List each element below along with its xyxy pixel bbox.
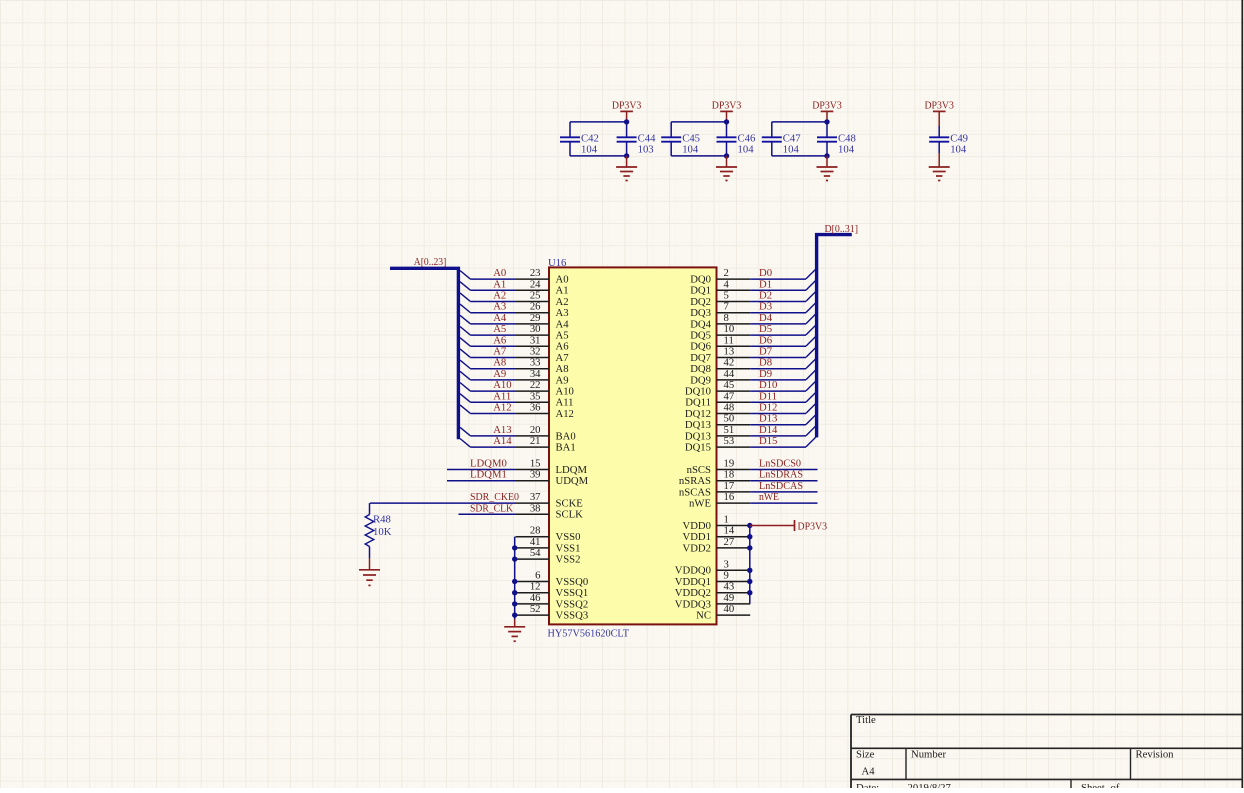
svg-text:46: 46: [530, 592, 541, 604]
svg-text:DQ1: DQ1: [690, 285, 711, 297]
svg-text:DQ11: DQ11: [685, 397, 711, 409]
svg-text:VSSQ3: VSSQ3: [556, 610, 589, 622]
net D3: wire + bus entry + label: [750, 301, 816, 313]
capacitor C42 104: [560, 132, 599, 155]
svg-text:A[0..23]: A[0..23]: [414, 256, 447, 268]
svg-text:D5: D5: [759, 323, 772, 335]
svg-text:A13: A13: [493, 424, 511, 436]
svg-text:nSRAS: nSRAS: [679, 475, 711, 487]
pin 53 (DQ15) right: [685, 435, 750, 453]
pin 48 (DQ12) right: [685, 402, 750, 420]
pin 32 (A7) left: [516, 346, 570, 364]
svg-text:20: 20: [530, 424, 541, 436]
svg-text:A14: A14: [493, 435, 512, 447]
svg-text:nSCAS: nSCAS: [679, 486, 711, 498]
svg-text:13: 13: [724, 346, 735, 358]
svg-text:C49: C49: [950, 132, 968, 144]
svg-text:A1: A1: [493, 278, 506, 290]
svg-text:10: 10: [724, 323, 735, 335]
svg-text:24: 24: [530, 278, 541, 290]
svg-text:32: 32: [530, 346, 541, 358]
svg-text:Sheet: Sheet: [1081, 782, 1105, 788]
junction bottom node: [624, 153, 629, 158]
pin 42 (DQ8) right: [690, 357, 750, 375]
svg-text:D0: D0: [759, 267, 772, 279]
net A8: bus entry + wire + label: [460, 357, 516, 369]
ground below R48: [369, 558, 371, 570]
svg-text:DP3V3: DP3V3: [798, 520, 828, 532]
net D7: wire + bus entry + label: [750, 346, 816, 358]
net D12: wire + bus entry + label: [750, 402, 816, 414]
svg-text:Date:: Date:: [856, 782, 879, 788]
net SDR_CLK: wire + label: [459, 502, 516, 514]
svg-text:U16: U16: [548, 257, 567, 269]
svg-text:A1: A1: [556, 285, 569, 297]
svg-text:8: 8: [724, 312, 729, 324]
pin 23 (A0) left: [516, 267, 569, 285]
pin 41 (VSS1) left: [516, 536, 581, 554]
svg-text:D14: D14: [759, 424, 778, 436]
svg-text:DQ7: DQ7: [690, 352, 711, 364]
net D4: wire + bus entry + label: [750, 312, 816, 324]
svg-text:36: 36: [530, 402, 541, 414]
svg-text:48: 48: [724, 402, 735, 414]
pin 49 (VDDQ3) right: [675, 592, 750, 610]
svg-text:D8: D8: [759, 357, 772, 369]
svg-text:A2: A2: [493, 290, 506, 302]
svg-text:5: 5: [724, 290, 729, 302]
capacitor C45 104: [661, 132, 700, 155]
svg-text:A10: A10: [493, 379, 511, 391]
net A10: bus entry + wire + label: [460, 379, 516, 391]
power port DP3V3 at VDD0: [750, 520, 827, 532]
net D1: wire + bus entry + label: [750, 278, 816, 290]
junction VSS rail: [512, 579, 517, 584]
net D13: wire + bus entry + label: [750, 413, 816, 425]
net D5: wire + bus entry + label: [750, 323, 816, 335]
pin 2 (DQ0) right: [690, 267, 750, 285]
net D0: wire + bus entry + label: [750, 267, 816, 279]
svg-text:VDDQ2: VDDQ2: [675, 587, 711, 599]
wire VDD rail: [749, 526, 751, 604]
junction top node: [624, 119, 629, 124]
pin 4 (DQ1) right: [690, 278, 750, 296]
svg-text:VSS2: VSS2: [556, 554, 581, 566]
svg-text:A11: A11: [556, 397, 574, 409]
pin 47 (DQ11) right: [685, 390, 750, 408]
svg-text:DQ4: DQ4: [690, 318, 711, 330]
svg-text:45: 45: [724, 379, 735, 391]
svg-text:A7: A7: [493, 346, 507, 358]
junction top node: [824, 119, 829, 124]
svg-text:D10: D10: [759, 379, 777, 391]
svg-text:Title: Title: [856, 714, 876, 726]
svg-text:BA1: BA1: [556, 442, 576, 454]
svg-text:A0: A0: [493, 267, 506, 279]
svg-text:VDD2: VDD2: [683, 542, 712, 554]
pin 33 (A8) left: [516, 357, 569, 375]
svg-text:NC: NC: [696, 610, 711, 622]
svg-text:DQ15: DQ15: [685, 442, 711, 454]
pin 1 (VDD0) right: [683, 514, 751, 532]
svg-text:A4: A4: [862, 766, 876, 778]
pin 5 (DQ2) right: [690, 290, 750, 308]
svg-text:DP3V3: DP3V3: [924, 100, 954, 112]
svg-text:51: 51: [724, 424, 735, 436]
svg-text:LDQM1: LDQM1: [470, 469, 507, 481]
net A3: bus entry + wire + label: [460, 301, 516, 313]
resistor R48 10K: [365, 503, 391, 558]
svg-text:47: 47: [724, 390, 735, 402]
pin 43 (VDDQ2) right: [675, 581, 750, 599]
svg-text:LnSDRAS: LnSDRAS: [759, 469, 803, 481]
svg-text:38: 38: [530, 502, 541, 514]
wire top rail C45-C46: [671, 122, 726, 137]
svg-text:33: 33: [530, 357, 541, 369]
net A11: bus entry + wire + label: [460, 390, 516, 402]
svg-text:104: 104: [738, 144, 755, 156]
pin 9 (VDDQ1) right: [675, 570, 750, 588]
svg-text:50: 50: [724, 413, 735, 425]
svg-text:D13: D13: [759, 413, 777, 425]
svg-text:53: 53: [724, 435, 735, 447]
ground below C44: [626, 156, 628, 167]
power port DP3V3 above C44: [612, 100, 642, 122]
svg-text:19: 19: [724, 458, 735, 470]
svg-text:C47: C47: [783, 132, 801, 144]
pin 22 (A10) left: [516, 379, 574, 397]
svg-text:nWE: nWE: [759, 491, 779, 503]
svg-text:DQ2: DQ2: [690, 296, 711, 308]
svg-text:40: 40: [724, 603, 735, 615]
net D9: wire + bus entry + label: [750, 368, 816, 380]
svg-text:12: 12: [530, 581, 541, 593]
pin 6 (VSSQ0) left: [516, 570, 589, 588]
svg-text:SDR_CLK: SDR_CLK: [470, 502, 513, 514]
wire bottom rail C45-C46: [671, 142, 726, 156]
power port DP3V3 above C48: [812, 100, 842, 122]
svg-text:SDR_CKE0: SDR_CKE0: [470, 491, 519, 503]
net LDQM1: wire + label: [447, 469, 516, 481]
svg-text:1: 1: [724, 514, 729, 526]
pin 12 (VSSQ1) left: [516, 581, 589, 599]
pin 35 (A11) left: [516, 390, 574, 408]
svg-text:C44: C44: [638, 132, 656, 144]
svg-text:39: 39: [530, 469, 541, 481]
svg-text:A3: A3: [556, 307, 569, 319]
svg-text:104: 104: [838, 144, 855, 156]
svg-text:VDDQ1: VDDQ1: [675, 576, 711, 588]
svg-text:44: 44: [724, 368, 735, 380]
svg-text:A6: A6: [493, 334, 507, 346]
svg-text:16: 16: [724, 491, 735, 503]
svg-text:A4: A4: [556, 318, 570, 330]
svg-text:D12: D12: [759, 402, 777, 414]
svg-text:28: 28: [530, 525, 541, 537]
svg-text:C46: C46: [738, 132, 756, 144]
net A6: bus entry + wire + label: [460, 334, 516, 346]
svg-text:A7: A7: [556, 352, 570, 364]
pin 36 (A12) left: [516, 402, 574, 420]
junction bottom node: [824, 153, 829, 158]
svg-text:3: 3: [724, 558, 729, 570]
pin 18 (nSRAS) right: [679, 469, 750, 487]
net A13: bus entry + wire + label: [460, 424, 516, 436]
svg-text:DP3V3: DP3V3: [612, 100, 642, 112]
capacitor C47 104: [762, 132, 801, 155]
svg-text:A2: A2: [556, 296, 569, 308]
ground below C48: [826, 156, 828, 167]
wire below C49: [938, 142, 940, 153]
pin 26 (A3) left: [516, 301, 569, 319]
pin 44 (DQ9) right: [690, 368, 750, 386]
svg-text:D6: D6: [759, 334, 773, 346]
svg-text:54: 54: [530, 547, 541, 559]
net D15: wire + bus entry + label: [750, 435, 816, 447]
svg-text:A6: A6: [556, 341, 570, 353]
svg-text:DQ13: DQ13: [685, 419, 711, 431]
svg-text:nWE: nWE: [689, 498, 711, 510]
svg-text:35: 35: [530, 390, 541, 402]
power port DP3V3 above C49: [924, 100, 954, 127]
svg-text:30: 30: [530, 323, 541, 335]
pin 24 (A1) left: [516, 278, 569, 296]
svg-text:Size: Size: [856, 749, 875, 761]
pin 10 (DQ5) right: [690, 323, 750, 341]
svg-text:DP3V3: DP3V3: [712, 100, 742, 112]
pin 16 (nWE) right: [689, 491, 750, 509]
svg-text:7: 7: [724, 301, 730, 313]
svg-text:LDQM: LDQM: [556, 464, 588, 476]
pin 3 (VDDQ0) right: [675, 558, 750, 576]
svg-text:D11: D11: [759, 390, 777, 402]
pin 11 (DQ6) right: [690, 334, 750, 352]
svg-text:LnSDCAS: LnSDCAS: [759, 480, 803, 492]
svg-text:HY57V561620CLT: HY57V561620CLT: [548, 627, 630, 639]
svg-text:C42: C42: [581, 132, 599, 144]
svg-text:26: 26: [530, 301, 541, 313]
net LDQM0: wire + label: [447, 458, 516, 470]
svg-text:52: 52: [530, 603, 541, 615]
pin 37 (SCKE) left: [516, 491, 583, 509]
svg-text:A3: A3: [493, 301, 506, 313]
pin 21 (BA1) left: [516, 435, 576, 453]
svg-text:6: 6: [535, 570, 541, 582]
svg-text:nSCS: nSCS: [687, 464, 711, 476]
svg-text:103: 103: [638, 144, 654, 156]
ground below VSS rail: [514, 619, 516, 627]
svg-text:SCKE: SCKE: [556, 498, 583, 510]
svg-text:104: 104: [950, 144, 967, 156]
svg-text:A9: A9: [493, 368, 506, 380]
svg-text:VSSQ2: VSSQ2: [556, 598, 589, 610]
svg-text:D7: D7: [759, 346, 773, 358]
svg-text:A5: A5: [493, 323, 506, 335]
junction bottom node: [724, 153, 729, 158]
svg-text:25: 25: [530, 290, 541, 302]
svg-text:A11: A11: [493, 390, 511, 402]
svg-text:VSS1: VSS1: [556, 542, 581, 554]
svg-text:42: 42: [724, 357, 735, 369]
capacitor C48 104: [817, 132, 856, 155]
junction VDD rail: [747, 568, 752, 573]
svg-text:22: 22: [530, 379, 541, 391]
svg-text:23: 23: [530, 267, 541, 279]
net A14: bus entry + wire + label: [460, 435, 516, 447]
net LnSDRAS: wire + label: [750, 469, 817, 481]
wire VSS rail: [514, 537, 516, 619]
pin 14 (VDD1) right: [683, 525, 751, 543]
svg-text:C48: C48: [838, 132, 856, 144]
svg-text:A4: A4: [493, 312, 507, 324]
junction VDD rail: [747, 590, 752, 595]
pin 31 (A6) left: [516, 334, 570, 352]
pin 50 (DQ13) right: [685, 413, 750, 431]
junction VDD rail: [747, 545, 752, 550]
svg-text:27: 27: [724, 536, 735, 548]
svg-text:21: 21: [530, 435, 541, 447]
svg-text:4: 4: [724, 278, 730, 290]
svg-text:34: 34: [530, 368, 541, 380]
svg-text:37: 37: [530, 491, 541, 503]
svg-text:DQ9: DQ9: [690, 374, 711, 386]
pin 29 (A4) left: [516, 312, 570, 330]
svg-text:DQ5: DQ5: [690, 330, 711, 342]
svg-text:LDQM0: LDQM0: [470, 458, 507, 470]
pin 30 (A5) left: [516, 323, 569, 341]
net A4: bus entry + wire + label: [460, 312, 516, 324]
svg-text:104: 104: [581, 144, 598, 156]
svg-text:A9: A9: [556, 374, 569, 386]
wire bottom rail C42-C44: [570, 142, 627, 156]
svg-text:VSSQ0: VSSQ0: [556, 576, 589, 588]
pin 20 (BA0) left: [516, 424, 576, 442]
wire bottom rail C47-C48: [772, 142, 827, 156]
svg-text:43: 43: [724, 581, 735, 593]
ground below C49: [938, 153, 940, 167]
pin 25 (A2) left: [516, 290, 569, 308]
net A1: bus entry + wire + label: [460, 278, 516, 290]
pin 45 (DQ10) right: [685, 379, 750, 397]
net D11: wire + bus entry + label: [750, 390, 816, 402]
svg-text:9: 9: [724, 570, 729, 582]
pin 38 (SCLK) left: [516, 502, 584, 520]
svg-text:DQ13: DQ13: [685, 430, 711, 442]
pin 39 (UDQM) left: [516, 469, 589, 487]
wire top rail C47-C48: [772, 122, 827, 137]
pin 8 (DQ4) right: [690, 312, 750, 330]
title block: [851, 715, 1242, 789]
net A5: bus entry + wire + label: [460, 323, 516, 335]
junction VSS rail: [512, 545, 517, 550]
pin 17 (nSCAS) right: [679, 480, 750, 498]
svg-text:BA0: BA0: [556, 430, 576, 442]
svg-text:D3: D3: [759, 301, 772, 313]
svg-text:Number: Number: [911, 749, 946, 761]
svg-text:29: 29: [530, 312, 541, 324]
net D2: wire + bus entry + label: [750, 290, 816, 302]
pin 19 (nSCS) right: [687, 458, 751, 476]
pin 15 (LDQM) left: [516, 458, 588, 476]
svg-text:31: 31: [530, 334, 541, 346]
bus D[0..31]: [817, 235, 852, 438]
svg-text:104: 104: [682, 144, 699, 156]
svg-text:11: 11: [724, 334, 734, 346]
svg-text:49: 49: [724, 592, 735, 604]
net SDR_CKE0: wire + label: [370, 491, 519, 503]
net LnSDCS0: wire + label: [750, 458, 817, 470]
svg-text:DQ6: DQ6: [690, 341, 711, 353]
svg-text:A10: A10: [556, 386, 574, 398]
net D14: wire + bus entry + label: [750, 424, 816, 436]
svg-text:VSSQ1: VSSQ1: [556, 587, 589, 599]
svg-text:DQ12: DQ12: [685, 408, 711, 420]
net D10: wire + bus entry + label: [750, 379, 816, 391]
svg-text:A12: A12: [493, 402, 511, 414]
capacitor C44 103: [617, 132, 656, 155]
svg-text:A8: A8: [493, 357, 506, 369]
svg-text:VDD1: VDD1: [683, 531, 712, 543]
junction VDD rail: [747, 579, 752, 584]
svg-text:DP3V3: DP3V3: [812, 100, 842, 112]
net A2: bus entry + wire + label: [460, 290, 516, 302]
pin 13 (DQ7) right: [690, 346, 750, 364]
net A0: bus entry + wire + label: [460, 267, 516, 279]
capacitor C46 104: [717, 132, 756, 155]
IC U16 HY57V561620CLT body: [549, 267, 717, 624]
ground below C46: [726, 156, 728, 167]
svg-text:D1: D1: [759, 278, 772, 290]
svg-text:D2: D2: [759, 290, 772, 302]
junction VSS rail: [512, 590, 517, 595]
pin 28 (VSS0) left: [516, 525, 581, 543]
svg-text:104: 104: [783, 144, 800, 156]
svg-text:A8: A8: [556, 363, 569, 375]
junction VDD rail: [747, 523, 752, 528]
net D8: wire + bus entry + label: [750, 357, 816, 369]
svg-text:Revision: Revision: [1136, 749, 1175, 761]
svg-text:41: 41: [530, 536, 541, 548]
svg-text:DQ3: DQ3: [690, 307, 711, 319]
junction VSS rail: [512, 556, 517, 561]
svg-text:LnSDCS0: LnSDCS0: [759, 458, 801, 470]
svg-text:DQ10: DQ10: [685, 386, 711, 398]
svg-text:18: 18: [724, 469, 735, 481]
svg-text:2: 2: [724, 267, 729, 279]
svg-text:D15: D15: [759, 435, 777, 447]
svg-text:D[0..31]: D[0..31]: [825, 223, 859, 235]
junction top node: [724, 119, 729, 124]
pin 46 (VSSQ2) left: [516, 592, 589, 610]
svg-text:D9: D9: [759, 368, 772, 380]
svg-text:A0: A0: [556, 274, 569, 286]
svg-text:15: 15: [530, 458, 541, 470]
svg-text:17: 17: [724, 480, 735, 492]
junction VSS rail: [512, 612, 517, 617]
pin 54 (VSS2) left: [516, 547, 581, 565]
bus A[0..23]: [390, 268, 458, 439]
svg-text:UDQM: UDQM: [556, 475, 589, 487]
svg-text:10K: 10K: [373, 526, 392, 538]
net LnSDCAS: wire + label: [750, 480, 817, 492]
svg-text:SCLK: SCLK: [556, 509, 584, 521]
svg-text:C45: C45: [682, 132, 700, 144]
net nWE: wire + label: [750, 491, 817, 503]
svg-text:DQ8: DQ8: [690, 363, 711, 375]
svg-text:2019/8/27: 2019/8/27: [908, 782, 952, 788]
pin 52 (VSSQ3) left: [516, 603, 589, 621]
pin 7 (DQ3) right: [690, 301, 750, 319]
